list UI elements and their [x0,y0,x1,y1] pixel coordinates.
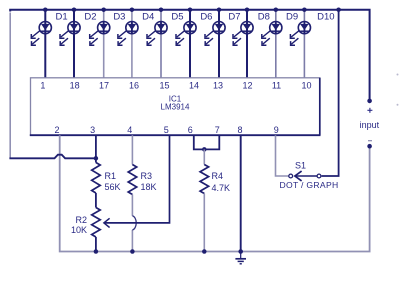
svg-text:R4: R4 [212,171,224,181]
svg-text:56K: 56K [105,182,121,192]
svg-text:D2: D2 [84,12,96,23]
svg-text:10: 10 [301,81,311,91]
svg-text:DOT / GRAPH: DOT / GRAPH [279,180,338,190]
svg-text:8: 8 [237,125,242,135]
svg-text:D7: D7 [228,12,240,23]
svg-text:D10: D10 [317,12,334,23]
svg-text:4.7K: 4.7K [212,183,231,193]
svg-text:5: 5 [164,125,169,135]
svg-text:6: 6 [188,125,193,135]
svg-text:1: 1 [40,81,45,91]
svg-text:S1: S1 [295,161,306,171]
svg-text:D8: D8 [258,12,270,23]
svg-text:10K: 10K [71,225,87,235]
svg-text:13: 13 [213,81,223,91]
svg-text:D4: D4 [142,12,154,23]
svg-text:9: 9 [274,125,279,135]
svg-text:18: 18 [70,81,80,91]
svg-text:D9: D9 [286,12,298,23]
svg-text:R1: R1 [105,171,117,181]
svg-text:R2: R2 [75,215,87,225]
svg-text:15: 15 [159,81,169,91]
svg-text:7: 7 [215,125,220,135]
svg-text:D1: D1 [56,12,68,23]
svg-text:D5: D5 [171,12,183,23]
svg-text:4: 4 [127,125,132,135]
svg-text:18K: 18K [141,182,157,192]
svg-text:14: 14 [189,81,199,91]
svg-text:11: 11 [272,81,281,91]
svg-text:input: input [360,120,380,130]
svg-text:LM3914: LM3914 [161,103,190,112]
svg-text:R3: R3 [141,171,153,181]
svg-text:2: 2 [54,125,59,135]
svg-text:12: 12 [242,81,252,91]
svg-text:16: 16 [129,81,139,91]
svg-text:D6: D6 [200,12,212,23]
svg-text:D3: D3 [113,12,125,23]
svg-text:3: 3 [90,125,95,135]
svg-text:17: 17 [99,81,109,91]
